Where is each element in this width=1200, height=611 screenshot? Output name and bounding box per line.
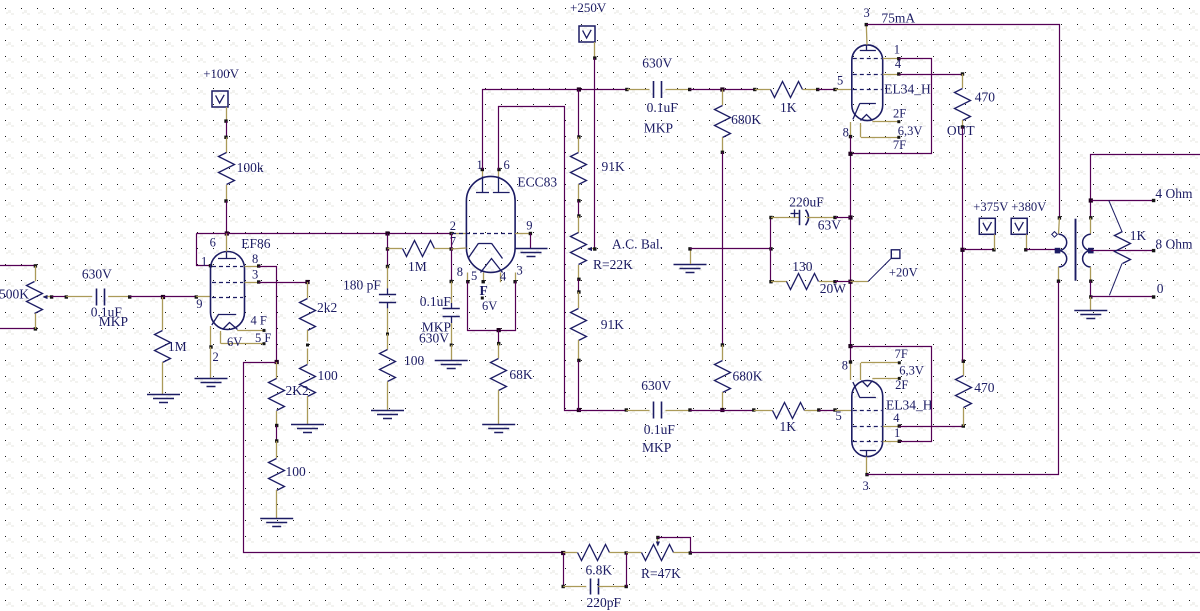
- wire 680K upper to 680K lower: [722, 152, 724, 345]
- svg-text:6.8K: 6.8K: [586, 563, 613, 578]
- svg-text:8: 8: [252, 252, 258, 266]
- svg-text:6V: 6V: [482, 299, 497, 313]
- svg-text:2: 2: [450, 219, 456, 233]
- svg-text:R=22K: R=22K: [593, 257, 633, 272]
- svg-text:F: F: [480, 283, 488, 298]
- svg-text:1K: 1K: [780, 419, 797, 434]
- svg-text:EL34_H: EL34_H: [884, 82, 931, 97]
- svg-text:ECC83: ECC83: [517, 175, 557, 190]
- svg-text:5 F: 5 F: [255, 331, 271, 345]
- wire 91K to AC Bal pot: [578, 201, 580, 216]
- transformer secondary winding: [1090, 218, 1092, 234]
- svg-text:9: 9: [526, 219, 532, 233]
- svg-text:220pF: 220pF: [587, 595, 622, 610]
- svg-text:4 Ohm: 4 Ohm: [1155, 186, 1193, 201]
- wire secondary top to output line: [1091, 155, 1200, 218]
- svg-text:68K: 68K: [509, 367, 533, 382]
- ECC83 heater pin F: [483, 273, 485, 282]
- capacitor C 0.1uF MKP 630V bottom coupling: [626, 410, 649, 412]
- capacitor C 180 pF: [387, 267, 389, 289]
- svg-text:680K: 680K: [733, 369, 763, 384]
- resistor R 100 under 180pF: [387, 334, 389, 350]
- svg-text:A.C. Bal.: A.C. Bal.: [612, 237, 663, 252]
- resistor R 680K lower: [722, 345, 724, 360]
- svg-text:+380V: +380V: [1011, 200, 1046, 214]
- ground EF86 pin 2: [195, 378, 228, 380]
- wire pot wiper to C 0.1uF: [52, 296, 67, 298]
- svg-text:7F: 7F: [895, 347, 908, 361]
- resistor R 680K upper: [722, 90, 724, 106]
- node EF86 plate junction: [225, 231, 229, 235]
- EL34 bottom heater pin 7F line: [860, 363, 862, 380]
- ground cathode network: [674, 264, 707, 266]
- EL34 top plate bar pin 3: [860, 50, 876, 52]
- svg-text:8: 8: [842, 359, 848, 373]
- svg-text:5: 5: [836, 409, 842, 423]
- wire cap to ground: [451, 345, 453, 361]
- voltage probe V +375V: [979, 218, 995, 234]
- svg-text:+20V: +20V: [889, 266, 918, 280]
- svg-text:0.1uF: 0.1uF: [420, 294, 452, 309]
- voltage probe V +380V: [1011, 218, 1027, 234]
- wire EL34 bottom plate to transformer: [867, 282, 1059, 475]
- ground under 100: [260, 518, 293, 520]
- svg-text:630V: 630V: [641, 378, 671, 393]
- svg-text:630V: 630V: [419, 331, 449, 346]
- resistor R 1M grid leak: [162, 297, 164, 330]
- wire rail to 1M and 180pF: [387, 234, 389, 250]
- EF86 grid dashed line pin 1/8: [212, 266, 243, 268]
- potentiometer R=22K AC Bal: [578, 216, 580, 233]
- node 180pF branch on top rail: [385, 231, 389, 235]
- svg-text:1: 1: [201, 255, 207, 269]
- ECC83 pin 9 wire to ground: [515, 233, 530, 235]
- ground ECC83 pin 9: [515, 248, 548, 250]
- svg-text:91K: 91K: [601, 317, 625, 332]
- svg-text:75mA: 75mA: [881, 11, 915, 26]
- EF86 heater pin 4F line: [237, 330, 264, 332]
- svg-text:500K: 500K: [0, 287, 29, 302]
- svg-text:5: 5: [837, 74, 843, 88]
- svg-text:6: 6: [504, 158, 510, 172]
- svg-text:4: 4: [500, 270, 507, 284]
- resistor R 1K secondary bleeder: [1109, 201, 1122, 232]
- EL34 top pin 8 lead: [850, 122, 852, 137]
- ECC83 grid dashed line: [452, 233, 514, 235]
- EF86 plate bar pin 6: [218, 258, 236, 260]
- wire 0 tap: [1091, 296, 1154, 298]
- svg-text:+100V: +100V: [203, 67, 239, 81]
- tube EL34 top envelope: [852, 45, 883, 121]
- svg-text:3: 3: [863, 479, 869, 493]
- node 91K chain bottom on rail: [577, 408, 581, 412]
- resistor R 2K2 cathode: [276, 362, 278, 379]
- ground under 1M: [147, 394, 180, 396]
- capacitor C 0.1uF MKP 630V input: [66, 296, 92, 298]
- capacitor C 0.1uF MKP 630V top coupling: [627, 89, 650, 91]
- svg-text:2: 2: [213, 350, 219, 364]
- potentiometer R=47K feedback: [626, 552, 641, 554]
- svg-text:6,3V: 6,3V: [898, 124, 923, 138]
- ECC83 pin 6 lead: [498, 170, 500, 177]
- potentiometer R 500K: [35, 266, 37, 281]
- R=47K wiper arrow: [657, 538, 659, 546]
- svg-text:1: 1: [477, 158, 483, 172]
- wire EF86 pin 3 to 2k2: [245, 282, 259, 284]
- capacitor C 220uF 63V polarized: [769, 216, 772, 219]
- EF86 heater chevron: [223, 323, 238, 330]
- wire EL34 top plate to transformer: [867, 25, 1060, 218]
- svg-text:63V: 63V: [818, 218, 842, 233]
- svg-text:6,3V: 6,3V: [899, 364, 924, 378]
- EF86 grid dashed line pin 9: [212, 297, 243, 299]
- ground screen chain: [291, 424, 324, 426]
- wire 4 Ohm tap: [1091, 200, 1154, 202]
- resistor R 100 below 2K2: [276, 441, 278, 458]
- svg-text:OUT: OUT: [947, 123, 975, 138]
- svg-text:MKP: MKP: [99, 314, 128, 329]
- ECC83 plate bar pin 1: [476, 192, 489, 194]
- svg-text:8 Ohm: 8 Ohm: [1155, 237, 1193, 252]
- resistor R 1K bottom grid stopper: [754, 410, 773, 412]
- wire grid node to EF86 pin 9: [163, 296, 196, 298]
- wire ECC83 plate 1 to top rail: [483, 90, 579, 170]
- svg-text:1: 1: [894, 43, 900, 57]
- svg-text:3: 3: [864, 6, 870, 20]
- transformer core: [1075, 219, 1077, 281]
- ECC83 plate bar pin 6: [493, 192, 510, 194]
- svg-text:4: 4: [895, 57, 902, 71]
- svg-text:2F: 2F: [893, 107, 906, 121]
- resistor R 1M horizontal: [388, 248, 403, 250]
- EL34 bottom plate bar pin 3: [860, 450, 876, 452]
- EL34 bottom pin 1 wire to cathode: [883, 441, 900, 443]
- wire 91K lower to bottom rail: [578, 360, 580, 410]
- svg-text:9: 9: [196, 297, 202, 311]
- svg-text:6V: 6V: [227, 335, 242, 349]
- svg-text:8: 8: [457, 265, 463, 279]
- svg-text:1: 1: [894, 426, 900, 440]
- EL34 top pin 3 lead: [865, 25, 868, 45]
- svg-text:0.1uF: 0.1uF: [644, 422, 676, 437]
- resistor R 68K: [498, 344, 500, 359]
- node feedback left junction: [561, 551, 565, 555]
- EL34 bottom heater chevron: [862, 381, 873, 387]
- wiper arrow of 500K pot: [44, 296, 52, 298]
- wire OUT screen bus: [962, 127, 964, 361]
- wire 130 to cathode bus: [835, 281, 851, 283]
- wire ECC83 plate 2 loop to bottom rail: [499, 107, 579, 411]
- resistor R 100k plate load: [226, 137, 228, 153]
- ECC83 pin 1 lead: [482, 170, 484, 177]
- wire down to 180pF: [387, 249, 389, 267]
- svg-text:470: 470: [974, 380, 995, 395]
- EL34 bottom pin 4 wire to 470: [883, 426, 900, 428]
- wire +380V probe to center tap: [1026, 234, 1028, 250]
- probe box +20V: [891, 250, 900, 259]
- svg-text:8: 8: [843, 126, 849, 140]
- EF86 heater pin 5F line: [220, 331, 222, 344]
- svg-text:2K2: 2K2: [286, 383, 309, 398]
- EF86 grid dashed line pin 3: [212, 282, 243, 284]
- svg-text:R=47K: R=47K: [641, 566, 681, 581]
- wire 1K to EL34 bottom pin 5: [819, 410, 835, 412]
- svg-text:470: 470: [975, 90, 996, 105]
- tube EL34 bottom envelope: [852, 381, 883, 457]
- wire probe to R 100k: [226, 107, 228, 121]
- node feedback junction: [275, 360, 279, 364]
- EL34 bottom pin 8 lead: [850, 362, 852, 380]
- plus sign 220uF: [791, 213, 799, 215]
- phase diamond primary: [1052, 232, 1058, 238]
- svg-text:MKP: MKP: [642, 440, 671, 455]
- svg-text:+375V: +375V: [973, 200, 1008, 214]
- wire cathode bus: [850, 137, 852, 362]
- svg-text:2k2: 2k2: [317, 300, 337, 315]
- svg-text:3: 3: [252, 268, 258, 282]
- svg-text:+250V: +250V: [570, 0, 607, 15]
- ground under 180pF chain: [371, 410, 404, 412]
- wire top rail to top coupling cap: [579, 89, 627, 91]
- EF86 pin 2 cathode lead: [210, 326, 212, 347]
- ECC83 pin 5 and pin 3 cathode box: [467, 273, 469, 282]
- EF86 cathode: [219, 314, 236, 316]
- svg-text:91K: 91K: [602, 159, 626, 174]
- svg-text:130: 130: [792, 259, 813, 274]
- resistor R 91K upper: [578, 90, 580, 138]
- wire top coupling cap to EL34 grid: [690, 89, 755, 91]
- voltage probe V +100V: [212, 91, 228, 107]
- wire top rail EF86 plate to ECC83 grid pin 2: [196, 233, 451, 235]
- svg-text:100k: 100k: [237, 160, 264, 175]
- node 4 Ohm tap junction: [1089, 198, 1093, 202]
- ground 68K: [482, 424, 515, 426]
- EL34 top grid dashed pin 4: [853, 74, 882, 76]
- svg-text:2F: 2F: [895, 378, 908, 392]
- svg-text:630V: 630V: [642, 56, 672, 71]
- wire 8 Ohm tap: [1091, 250, 1154, 252]
- resistor R 6.8K feedback: [563, 552, 577, 554]
- EL34 top heater pin 7F line: [860, 123, 862, 137]
- svg-text:100: 100: [286, 464, 307, 479]
- svg-text:1K: 1K: [780, 100, 797, 115]
- resistor R 2k2 screen: [307, 282, 309, 298]
- EL34 top cathode: [860, 103, 876, 105]
- wire +250V probe to AC Bal wiper: [594, 42, 596, 58]
- EL34 bottom heater pin 2F line: [872, 378, 899, 380]
- EL34 bottom grid dashed pin 5: [853, 410, 882, 412]
- resistor R 470 bottom screen: [963, 408, 965, 427]
- resistor R 1K top grid stopper: [755, 89, 771, 91]
- svg-text:4 F: 4 F: [251, 314, 267, 328]
- wire feedback to bottom rail: [244, 363, 564, 553]
- wire feedback to output line right edge: [690, 552, 1200, 554]
- EL34 bottom grid dashed pin 4: [853, 426, 882, 428]
- capacitor C 220pF feedback: [563, 553, 565, 587]
- resistor R 91K lower: [578, 292, 580, 308]
- wire EF86 pin 8 to cathode feedback node: [245, 266, 259, 268]
- svg-text:3: 3: [517, 264, 523, 278]
- voltage probe V +250V: [579, 26, 595, 42]
- svg-text:220uF: 220uF: [789, 195, 824, 210]
- svg-text:5: 5: [471, 269, 477, 283]
- ECC83 cathode tab pin 7: [451, 248, 466, 249]
- EL34 bottom pin 3 lead: [866, 457, 868, 475]
- svg-text:20W: 20W: [820, 281, 847, 296]
- ECC83 heater chevron: [481, 259, 503, 273]
- svg-text:EF86: EF86: [241, 236, 271, 251]
- svg-text:4: 4: [893, 411, 900, 425]
- svg-text:100: 100: [404, 353, 425, 368]
- tube EF86 envelope: [211, 252, 245, 330]
- ground secondary: [1090, 297, 1092, 311]
- AC Bal wiper arrow: [588, 248, 595, 250]
- svg-text:0.1uF: 0.1uF: [647, 100, 679, 115]
- EL34 bottom cathode: [860, 397, 876, 399]
- transformer primary winding: [1058, 218, 1061, 234]
- probe +20V flying lead: [851, 281, 868, 283]
- svg-text:180 pF: 180 pF: [343, 278, 381, 293]
- wire EF86 pin 1 loop: [197, 234, 211, 266]
- svg-text:7F: 7F: [893, 138, 906, 152]
- wire to 68K: [498, 330, 500, 344]
- node cathode box junction: [497, 328, 501, 332]
- wire secondary bottom: [1090, 281, 1092, 297]
- EL34 top grid dashed pin 1: [853, 58, 882, 60]
- EL34 top pin 1 wire to cathode: [883, 58, 899, 60]
- wire 1K to EL34 pin 5: [818, 89, 835, 91]
- wire 2K2 to 100: [276, 426, 278, 442]
- svg-text:680K: 680K: [731, 112, 761, 127]
- wire input top stub to pot R 500K: [0, 265, 35, 267]
- svg-text:1M: 1M: [168, 339, 187, 354]
- svg-text:100: 100: [318, 368, 339, 383]
- resistor R 470 top screen: [962, 74, 964, 88]
- node ECC83 pin2 on rail: [450, 232, 453, 235]
- wire ECC83 left pins vertical: [451, 234, 453, 282]
- wire pot to 91K lower: [578, 279, 580, 292]
- svg-text:6: 6: [210, 236, 216, 250]
- wire input cap to grid node: [130, 296, 163, 298]
- tube ECC83 envelope: [466, 176, 515, 272]
- EL34 bottom grid dashed pin 1: [853, 441, 882, 443]
- resistor R 100 screen chain: [307, 349, 309, 365]
- svg-text:7: 7: [450, 235, 456, 249]
- wire input bottom stub to pot R 500K: [0, 328, 35, 330]
- EL34 top heater pin 2F line: [872, 121, 898, 123]
- EL34 top grid dashed pin 5: [853, 89, 882, 91]
- wire 100k to EF86 plate node: [226, 201, 228, 234]
- capacitor C 0.1uF MKP 630V cathode: [451, 282, 453, 304]
- wire OUT node to +375V probe: [963, 249, 994, 251]
- svg-text:1M: 1M: [408, 259, 427, 274]
- wire ground to cathode RC: [690, 248, 771, 250]
- wire bottom rail to bottom coupling cap: [579, 410, 626, 412]
- svg-text:630V: 630V: [82, 267, 112, 282]
- wire 220uF to cathode bus: [835, 217, 851, 219]
- svg-text:MKP: MKP: [644, 121, 673, 136]
- resistor R 130 20W cathode: [769, 280, 772, 283]
- svg-text:1K: 1K: [1130, 228, 1147, 243]
- EL34 top heater chevron: [861, 115, 873, 121]
- ground cathode cap: [435, 360, 468, 362]
- svg-text:0: 0: [1157, 281, 1164, 296]
- ECC83 pin 4 stub: [500, 273, 502, 283]
- wire cathode RC left vertical: [770, 218, 772, 282]
- EL34 top pin 4 wire to 470: [883, 74, 899, 76]
- wire bottom coupling cap to EL34 grid: [690, 410, 754, 412]
